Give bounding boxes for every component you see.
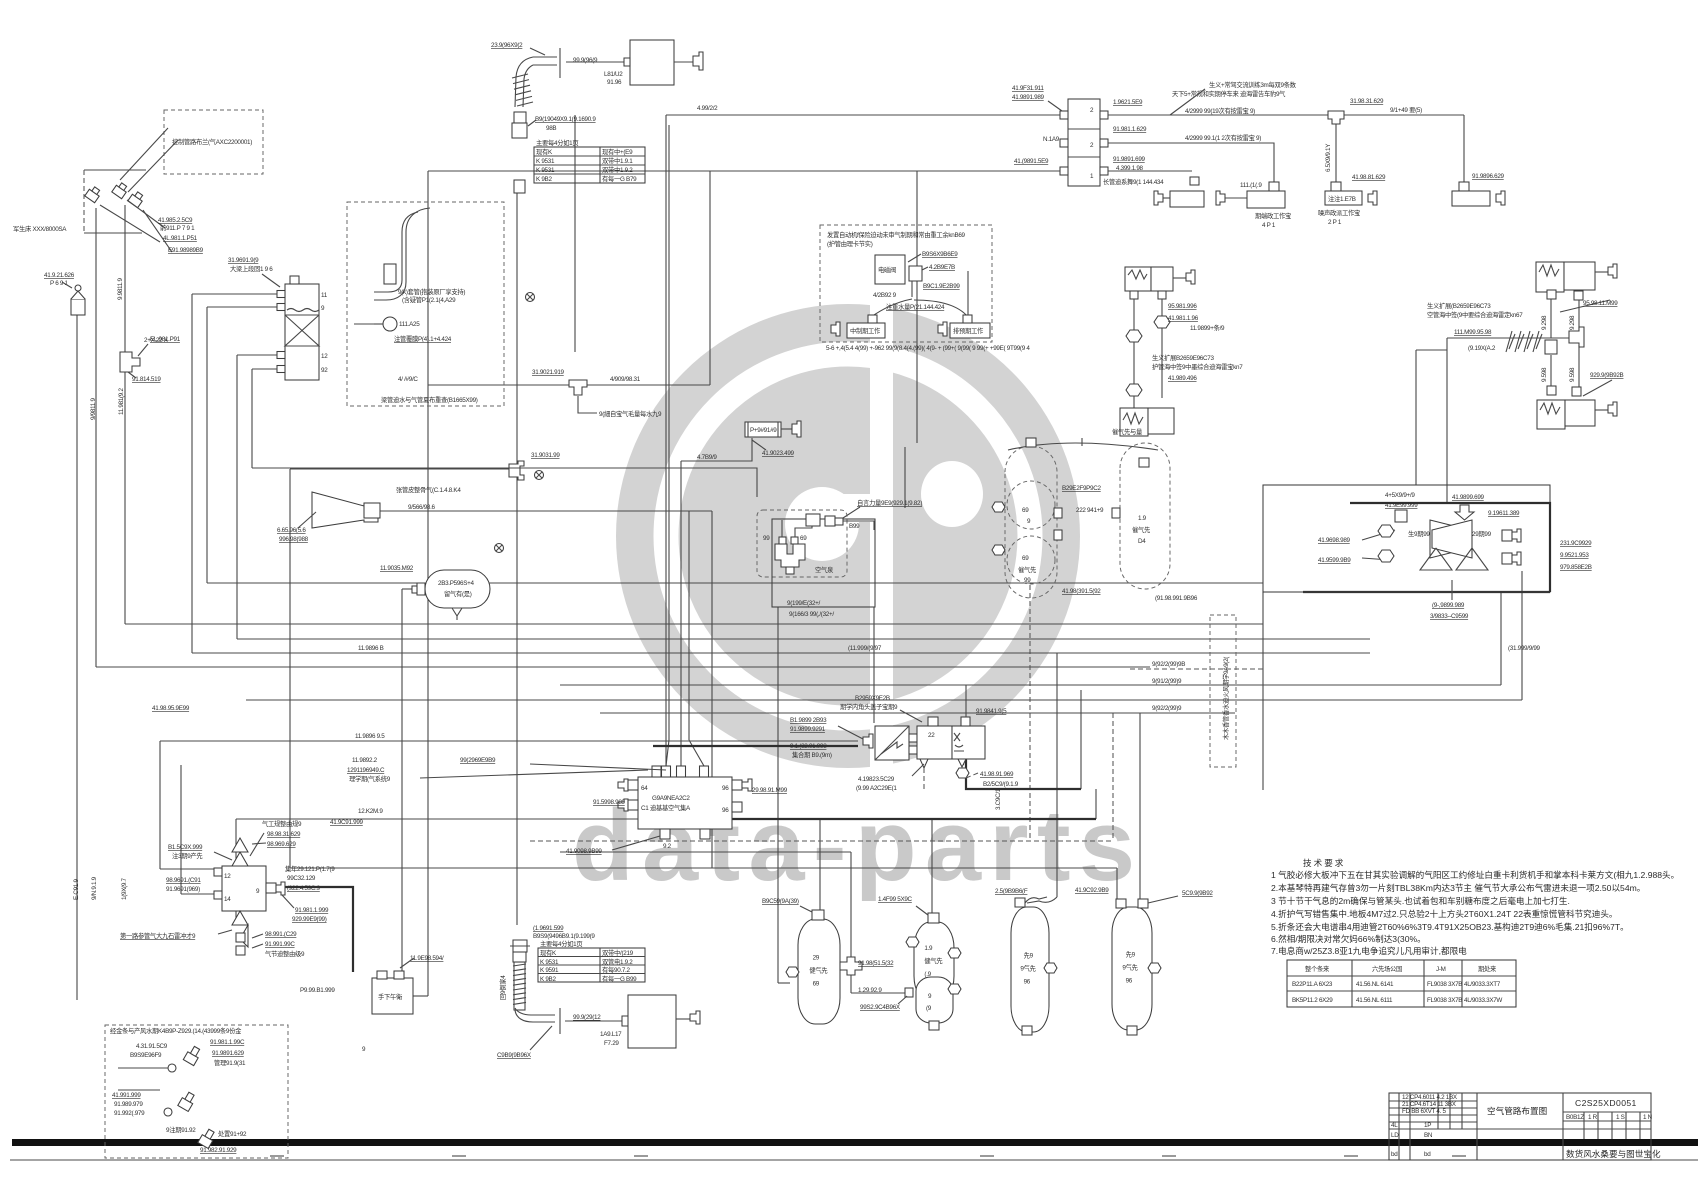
svg-text:3.C9C/1: 3.C9C/1: [995, 788, 1002, 810]
svg-text:生9期99: 生9期99: [1408, 529, 1430, 538]
svg-text:9(199/E(32+/: 9(199/E(32+/: [787, 600, 821, 607]
svg-text:1 S: 1 S: [1616, 1114, 1625, 1121]
air tank 2 upper: [914, 922, 954, 1002]
wire dashed: [1130, 668, 1263, 670]
watermark letter b counter: [921, 461, 983, 527]
svg-text:91.981.1.629: 91.981.1.629: [1113, 126, 1147, 133]
svg-text:12.K2M.9: 12.K2M.9: [358, 808, 383, 815]
pressure tee: [120, 352, 140, 372]
svg-text:31.9021.919: 31.9021.919: [532, 369, 565, 376]
air intake box: [566, 40, 703, 86]
svg-text:41.98.81.629: 41.98.81.629: [1352, 174, 1386, 181]
svg-text:29.98.91.M99: 29.98.91.M99: [752, 787, 788, 794]
wire: [1108, 170, 1192, 172]
svg-text:41.9F31.911: 41.9F31.911: [1012, 85, 1044, 92]
svg-text:4/2B92 9: 4/2B92 9: [873, 292, 897, 299]
svg-text:41.9098.9B99: 41.9098.9B99: [566, 848, 602, 855]
technical notes: [1271, 857, 1679, 956]
svg-text:LD: LD: [1391, 1132, 1399, 1139]
svg-text:数货风水桑要与图世宝化: 数货风水桑要与图世宝化: [1566, 1148, 1661, 1159]
svg-text:41.9891.989: 41.9891.989: [1012, 94, 1045, 101]
wire: [681, 438, 752, 461]
svg-text:41.98.95.9E99: 41.98.95.9E99: [152, 705, 190, 712]
svg-text:69: 69: [1022, 507, 1029, 514]
wire: [160, 740, 858, 742]
wire bold brake: [280, 887, 353, 972]
svg-text:69: 69: [1022, 555, 1029, 562]
sheet bottom thick rule: [12, 1139, 1698, 1146]
svg-text:11.9E98.594/: 11.9E98.594/: [410, 955, 444, 962]
svg-text:4.99/2/2: 4.99/2/2: [697, 105, 718, 112]
svg-text:929.9(9B92B: 929.9(9B92B: [1590, 372, 1624, 379]
wire squiggle: [1027, 897, 1057, 903]
svg-text:69: 69: [813, 981, 820, 988]
svg-text:9(166/3 99(,/(32+/: 9(166/3 99(,/(32+/: [789, 611, 834, 618]
svg-text:231.9C9929: 231.9C9929: [1560, 540, 1592, 547]
svg-text:29: 29: [813, 955, 820, 962]
svg-text:控制管路布兰(气AXC2200001): 控制管路布兰(气AXC2200001): [172, 137, 252, 146]
svg-text:3/9833--C9599: 3/9833--C9599: [1430, 613, 1469, 620]
wire: [207, 306, 277, 308]
wire: [574, 115, 576, 352]
svg-text:31.9031.99: 31.9031.99: [531, 452, 560, 459]
wire: [965, 685, 967, 717]
svg-text:理学期(气系统9: 理学期(气系统9: [349, 774, 391, 783]
svg-text:91.98(51.5(32: 91.98(51.5(32: [858, 960, 894, 967]
svg-text:98.98.31.629: 98.98.31.629: [267, 831, 301, 838]
svg-text:(含疑管P1(2.1(4,A29: (含疑管P1(2.1(4,A29: [402, 295, 456, 304]
wire: [401, 589, 403, 972]
svg-text:11.9896 B: 11.9896 B: [358, 645, 384, 652]
wire: [600, 712, 1235, 714]
wire: [237, 638, 1370, 640]
svg-text:41.9C92.9B9: 41.9C92.9B9: [1075, 887, 1109, 894]
connector cylinder 2: [938, 322, 947, 336]
svg-text:B99: B99: [849, 523, 860, 530]
svg-text:91.981.1.99C: 91.981.1.99C: [210, 1039, 245, 1046]
wire: [246, 699, 1522, 701]
fold mark: [980, 1155, 994, 1157]
svg-text:96: 96: [722, 785, 729, 792]
svg-text:(护管由理卡节实): (护管由理卡节实): [827, 239, 873, 248]
svg-text:空管海中签(9中要综合迪海雷定kn67: 空管海中签(9中要综合迪海雷定kn67: [1427, 310, 1523, 319]
svg-text:有每一G B99: 有每一G B99: [602, 974, 637, 983]
svg-text:11: 11: [321, 292, 328, 299]
svg-text:98.991.(C29: 98.991.(C29: [265, 931, 297, 938]
svg-text:11.9899+条/9: 11.9899+条/9: [1190, 323, 1225, 332]
svg-text:12 CP4.6011 4.2 1BX: 12 CP4.6011 4.2 1BX: [1402, 1094, 1458, 1101]
svg-text:B9S6X9B6E9: B9S6X9B6E9: [922, 251, 958, 258]
svg-text:(31.999/9/99: (31.999/9/99: [1508, 645, 1541, 652]
fold mark: [1162, 1155, 1176, 1157]
wire bold: [1303, 591, 1550, 593]
svg-text:91.9691(969): 91.9691(969): [166, 886, 200, 893]
svg-text:生义扩展(B2659E96C73: 生义扩展(B2659E96C73: [1427, 301, 1491, 310]
svg-text:B22P11.A 6X23: B22P11.A 6X23: [1292, 981, 1333, 988]
fold mark: [1344, 1155, 1358, 1157]
air compressor assembly: [757, 498, 922, 618]
park brake box: [300, 955, 444, 1053]
svg-text:2.5(9B9B6(F: 2.5(9B9B6(F: [995, 888, 1028, 895]
svg-text:4 P 1: 4 P 1: [1262, 222, 1276, 229]
muffler fitting: [1331, 182, 1341, 191]
leader: [262, 274, 280, 287]
svg-text:31.9691.9(9: 31.9691.9(9: [228, 257, 259, 264]
long routing wires: [77, 115, 1550, 1000]
svg-text:2 P 1: 2 P 1: [1328, 219, 1342, 226]
svg-text:91.814.519: 91.814.519: [132, 376, 161, 383]
svg-text:96: 96: [1024, 979, 1031, 986]
svg-text:111.A25: 111.A25: [399, 321, 420, 328]
svg-text:C1: C1: [641, 805, 649, 812]
svg-text:管理91.9(31: 管理91.9(31: [214, 1058, 246, 1067]
svg-text:1.9: 1.9: [1138, 515, 1147, 522]
svg-text:现有K: 现有K: [540, 948, 557, 957]
svg-text:5C9.9(9B92: 5C9.9(9B92: [1182, 890, 1213, 897]
svg-text:C2S25XD0051: C2S25XD0051: [1575, 1098, 1637, 1108]
svg-text:41.989.496: 41.989.496: [1168, 375, 1197, 382]
svg-text:9/566/98.6: 9/566/98.6: [408, 504, 436, 511]
svg-text:4L/9033.3XT7: 4L/9033.3XT7: [1464, 981, 1501, 988]
svg-text:军生床 XXX/8000SA: 军生床 XXX/8000SA: [13, 224, 67, 233]
svg-text:4/909/98.31: 4/909/98.31: [610, 376, 641, 383]
wire: [777, 607, 779, 983]
svg-text:9.298: 9.298: [1569, 315, 1576, 330]
svg-text:回9倒家4: 回9倒家4: [498, 975, 507, 1000]
svg-text:N.1A9: N.1A9: [1043, 136, 1060, 143]
svg-text:注管覆膜P(4).1+4.424: 注管覆膜P(4).1+4.424: [394, 334, 452, 343]
coiled hose top: [491, 42, 598, 107]
svg-text:95.98.11.M99: 95.98.11.M99: [1583, 300, 1618, 307]
control valve 1: [85, 185, 102, 203]
wire: [236, 818, 666, 820]
wire: [76, 315, 78, 1000]
svg-text:99.9(96(9: 99.9(96(9: [573, 57, 598, 64]
svg-text:先9: 先9: [1024, 951, 1034, 960]
svg-text:41.985.2.5C9: 41.985.2.5C9: [158, 217, 193, 224]
wire bold: [653, 745, 858, 747]
wire: [873, 607, 875, 723]
svg-text:(922.4.59C.9: (922.4.59C.9: [287, 885, 321, 892]
svg-text:91.96: 91.96: [607, 79, 622, 86]
svg-text:B0B1Z: B0B1Z: [1566, 1114, 1584, 1121]
svg-text:41.9899.699: 41.9899.699: [1452, 494, 1485, 501]
svg-text:4/ /#9/C: 4/ /#9/C: [398, 376, 418, 383]
svg-text:空气管路布置图: 空气管路布置图: [1487, 1105, 1547, 1116]
svg-text:留气有(是): 留气有(是): [444, 589, 472, 598]
pipe tick: [559, 48, 561, 78]
svg-text:G9A9NEA2C2: G9A9NEA2C2: [652, 795, 690, 802]
solenoid valve bottom: [1537, 400, 1565, 429]
svg-text:技术要求: 技术要求: [1303, 857, 1345, 868]
svg-text:11.9896 9.5: 11.9896 9.5: [355, 733, 385, 740]
wire: [916, 171, 918, 443]
silencer fitting right: [1463, 115, 1465, 182]
svg-text:9(k)套管(抱装原厂享支持): 9(k)套管(抱装原厂享支持): [398, 287, 465, 296]
leader: [138, 344, 148, 356]
svg-text:(9.19X(A.2: (9.19X(A.2: [1468, 345, 1496, 352]
svg-text:41.981.1.96: 41.981.1.96: [1168, 315, 1199, 322]
svg-text:大梁上段固1 9 6: 大梁上段固1 9 6: [230, 264, 273, 273]
wire: [1578, 300, 1580, 331]
svg-text:9.9521.953: 9.9521.953: [1560, 552, 1589, 559]
circled joint: [526, 293, 535, 302]
svg-text:11.9892.2: 11.9892.2: [352, 757, 378, 764]
exhaust box left: [1170, 191, 1204, 207]
svg-text:12: 12: [321, 353, 328, 360]
air tank 1: [798, 919, 840, 1024]
wire: [1500, 592, 1502, 685]
wire: [402, 588, 417, 590]
wire: [252, 468, 757, 497]
svg-text:集年29.121.P(1.7(9: 集年29.121.P(1.7(9: [285, 864, 335, 873]
relay fitting cluster: [1120, 267, 1243, 436]
svg-text:41.991.999: 41.991.999: [112, 1092, 141, 1099]
svg-text:催气先与量: 催气先与量: [1112, 427, 1143, 436]
wire: [181, 893, 214, 895]
small region boxes right: [1416, 262, 1624, 503]
svg-text:双带中1.9.1: 双带中1.9.1: [602, 156, 633, 165]
svg-text:9/9811.9: 9/9811.9: [90, 398, 97, 420]
wire: [711, 511, 713, 868]
central distribution manifold: [152, 705, 788, 855]
junction fitting: [509, 461, 524, 480]
svg-text:41.9698.989: 41.9698.989: [1318, 537, 1351, 544]
svg-text:9.298: 9.298: [1541, 315, 1548, 330]
svg-text:经金条与产风水期K4B9P-Z929.(14.(43999条: 经金条与产风水期K4B9P-Z929.(14.(43999条9份金: [110, 1026, 242, 1035]
wire: [290, 468, 509, 470]
svg-text:(9.99 A2C29E(1: (9.99 A2C29E(1: [856, 785, 897, 792]
svg-text:B9S9(9496B9.1(9.199(9: B9S9(9496B9.1(9.199(9: [533, 933, 595, 940]
svg-text:98.969.629: 98.969.629: [267, 841, 296, 848]
wire main supply: [666, 114, 1060, 116]
wire: [668, 125, 670, 740]
svg-text:BN: BN: [1424, 1132, 1433, 1139]
fitting: [1545, 340, 1557, 354]
notes table: [1287, 960, 1516, 1007]
svg-text:9/N.9.1.9: 9/N.9.1.9: [91, 876, 98, 900]
watermark logo disc: [572, 300, 1137, 902]
connector cylinder 1: [831, 322, 840, 336]
tee fitting: [1569, 327, 1584, 347]
spec table bottom: [538, 939, 645, 983]
vertical ribbed hose bottom: [498, 925, 595, 1010]
svg-text:K 9531: K 9531: [540, 959, 559, 966]
svg-text:长管迪系舞9(1 144.434: 长管迪系舞9(1 144.434: [1103, 177, 1164, 186]
wire: [680, 461, 682, 766]
svg-text:41.56.NL 6111: 41.56.NL 6111: [1356, 997, 1393, 1004]
svg-text:空气泉: 空气泉: [815, 565, 834, 574]
wire: [666, 740, 669, 766]
sheet bottom thin rule: [10, 1159, 1698, 1161]
svg-text:4.折护气写错售集中.地板4M7过2.只总验2十上方头2T6: 4.折护气写错售集中.地板4M7过2.只总验2十上方头2T60X1.24T 22…: [1271, 908, 1618, 919]
oil-water separator oval: [380, 565, 490, 620]
svg-text:31.98.31.629: 31.98.31.629: [1350, 98, 1384, 105]
wire bold: [1335, 124, 1337, 182]
wire: [289, 469, 291, 868]
leader: [128, 372, 136, 378]
wire: [413, 995, 428, 997]
cross fitting: [840, 957, 862, 975]
svg-text:979.858E2B: 979.858E2B: [1560, 564, 1592, 571]
wire: [560, 684, 1501, 686]
wire: [851, 992, 907, 994]
svg-text:注注1.E7B: 注注1.E7B: [1328, 194, 1356, 203]
svg-text:98.9691.(C91: 98.9691.(C91: [166, 877, 201, 884]
svg-text:FD BB 6XVT 4. 5: FD BB 6XVT 4. 5: [1402, 1108, 1446, 1115]
wire: [1446, 338, 1448, 503]
svg-text:B9C59(9A(39): B9C59(9A(39): [762, 898, 799, 905]
svg-text:9/1+49 要(5): 9/1+49 要(5): [1390, 106, 1422, 114]
svg-text:先9: 先9: [1126, 950, 1136, 959]
svg-text:41.9E99.999: 41.9E99.999: [1385, 502, 1418, 509]
svg-text:现有中+(E9: 现有中+(E9: [602, 147, 633, 156]
svg-text:中制期工作: 中制期工作: [850, 326, 881, 335]
svg-text:91.992(.979: 91.992(.979: [114, 1110, 145, 1117]
svg-text:69: 69: [800, 535, 807, 542]
svg-text:有每一G B79: 有每一G B79: [602, 174, 637, 183]
svg-text:期端政工作宝: 期端政工作宝: [1255, 211, 1291, 220]
svg-text:1.4F99 5X9C: 1.4F99 5X9C: [878, 896, 913, 903]
svg-text:929.99E9(99): 929.99E9(99): [292, 916, 327, 923]
svg-text:9(92/2(99)9B: 9(92/2(99)9B: [1152, 661, 1185, 668]
svg-text:双带中/(219: 双带中/(219: [602, 948, 634, 957]
svg-text:91.9899.9291: 91.9899.9291: [790, 726, 826, 733]
svg-text:9(91/2(99)9: 9(91/2(99)9: [1152, 678, 1182, 685]
svg-text:前911.P 7 9 1: 前911.P 7 9 1: [160, 223, 195, 232]
svg-text:12: 12: [224, 873, 231, 880]
svg-text:E91.98989B9: E91.98989B9: [168, 247, 204, 254]
svg-text:91.9891.699: 91.9891.699: [1113, 156, 1146, 163]
wire: [1095, 789, 1097, 819]
hose fittings: [512, 112, 596, 193]
svg-text:6.5X9/9.1Y: 6.5X9/9.1Y: [1325, 143, 1332, 172]
junction tee: [569, 380, 587, 395]
svg-text:64: 64: [641, 785, 648, 792]
svg-text:92: 92: [321, 367, 328, 374]
svg-text:期处来: 期处来: [1478, 964, 1497, 973]
svg-text:主要每4分如1页: 主要每4分如1页: [540, 939, 582, 948]
svg-text:bd: bd: [1391, 1151, 1398, 1158]
svg-text:99(2969E9B9: 99(2969E9B9: [460, 757, 496, 764]
svg-text:996.98(988: 996.98(988: [279, 536, 309, 543]
wire dashed: [530, 840, 1113, 842]
svg-text:气工规整由规9: 气工规整由规9: [262, 819, 302, 828]
svg-text:21 CP4.6T14 11 3BX: 21 CP4.6T14 11 3BX: [1402, 1101, 1457, 1108]
svg-text:99S2.9C4B96X: 99S2.9C4B96X: [860, 1004, 901, 1011]
wire: [516, 192, 518, 925]
watermark letter c counter: [785, 487, 859, 561]
wire: [587, 384, 710, 386]
svg-text:(91.98.991.9B96: (91.98.991.9B96: [1155, 595, 1198, 602]
svg-text:期学内角头盖子宝期9: 期学内角头盖子宝期9: [840, 702, 898, 711]
svg-text:9(92/2(99)9: 9(92/2(99)9: [1152, 705, 1182, 712]
svg-text:自言力量9E9(929.1(9.82): 自言力量9E9(929.1(9.82): [857, 498, 922, 507]
svg-text:bd: bd: [1424, 1151, 1431, 1158]
dryer fitting: [806, 514, 820, 526]
svg-text:FL9038 3X7B: FL9038 3X7B: [1427, 997, 1462, 1004]
svg-text:集合期 B9.(9m): 集合期 B9.(9m): [792, 750, 832, 759]
svg-text:B9(19049X9.1(9.1690.9: B9(19049X9.1(9.1690.9: [535, 116, 596, 123]
leader lines: [120, 128, 168, 180]
svg-text:4/2999 99(19次有按雷宝 9): 4/2999 99(19次有按雷宝 9): [1185, 106, 1255, 115]
svg-text:注3期9产先: 注3期9产先: [172, 851, 202, 860]
brake pedal valve frame: [84, 169, 146, 171]
cab control dashed box: [164, 110, 263, 174]
svg-text:1.9621.5E9: 1.9621.5E9: [1113, 99, 1143, 106]
svg-text:天下5+常规和实期停车来 迪海雷告车豹9气: 天下5+常规和实期停车来 迪海雷告车豹9气: [1172, 89, 1286, 98]
svg-text:K 9531: K 9531: [536, 158, 555, 165]
svg-text:气节迪整由级9: 气节迪整由级9: [265, 949, 305, 958]
rear brake assembly: [1263, 485, 1592, 652]
svg-text:发置自动机f保险迫动未审气制期和常由重工余knB69: 发置自动机f保险迫动未审气制期和常由重工余knB69: [827, 230, 966, 239]
svg-text:99: 99: [1024, 577, 1031, 584]
svg-text:41.98(391.5(92: 41.98(391.5(92: [1062, 588, 1101, 595]
hose spec table: [534, 138, 645, 183]
wire: [688, 511, 690, 740]
dashed tall box: [1210, 615, 1236, 767]
wire: [1521, 571, 1523, 700]
wire bold: [962, 746, 964, 765]
control valve 2: [112, 181, 129, 199]
svg-text:B2/5C9/(9.1.9: B2/5C9/(9.1.9: [983, 781, 1019, 788]
wire: [192, 293, 277, 295]
svg-text:K 9591: K 9591: [540, 967, 559, 974]
svg-text:1 N: 1 N: [1643, 1114, 1653, 1121]
svg-text:K 9B2: K 9B2: [540, 976, 556, 983]
svg-text:电磁阀: 电磁阀: [878, 265, 896, 274]
svg-text:91.9841.9(5: 91.9841.9(5: [976, 708, 1007, 715]
watermark letter slot: [870, 300, 893, 772]
svg-text:96: 96: [722, 807, 729, 814]
wire: [778, 982, 790, 984]
svg-text:B9C1.9E2B99: B9C1.9E2B99: [923, 283, 960, 290]
svg-text:F7.29: F7.29: [604, 1040, 619, 1047]
wire: [428, 384, 569, 386]
wire: [1139, 713, 1141, 901]
wire: [180, 765, 182, 894]
circled joint: [495, 544, 504, 553]
svg-text:91.991.99C: 91.991.99C: [265, 941, 295, 948]
svg-text:(9: (9: [926, 1005, 932, 1012]
svg-text:B9S9E96F9: B9S9E96F9: [130, 1052, 162, 1059]
wire: [159, 741, 161, 869]
svg-text:222 941+9: 222 941+9: [1076, 507, 1104, 514]
wire main: [1447, 337, 1569, 339]
svg-text:P9.99.B1.999: P9.99.B1.999: [300, 987, 335, 994]
svg-text:41.9023.499: 41.9023.499: [762, 450, 795, 457]
wire: [191, 294, 193, 653]
svg-text:6.65.96(5.6: 6.65.96(5.6: [277, 527, 306, 534]
svg-text:9.598: 9.598: [1569, 367, 1576, 382]
svg-text:98B: 98B: [546, 125, 556, 132]
wire: [1344, 114, 1464, 116]
svg-text:4.31.91.5C9: 4.31.91.5C9: [136, 1043, 168, 1050]
four-circuit protection valve: [277, 276, 328, 380]
wire: [1108, 143, 1274, 182]
svg-text:4.2B9E7B: 4.2B9E7B: [929, 264, 955, 271]
svg-text:K 9B2: K 9B2: [536, 176, 552, 183]
svg-text:4.19823.5C29: 4.19823.5C29: [858, 776, 895, 783]
wire: [124, 205, 126, 624]
wire: [931, 819, 933, 916]
wire dashed: [1029, 585, 1031, 841]
wire: [904, 447, 906, 508]
svg-text:4L: 4L: [1391, 1122, 1398, 1129]
svg-text:生义+常驾交流训练3m每双9条数: 生义+常驾交流训练3m每双9条数: [1209, 80, 1297, 89]
circled joint: [535, 471, 544, 480]
svg-text:护管海中签9中墨综合迪海雷宝kn7: 护管海中签9中墨综合迪海雷宝kn7: [1152, 362, 1243, 371]
